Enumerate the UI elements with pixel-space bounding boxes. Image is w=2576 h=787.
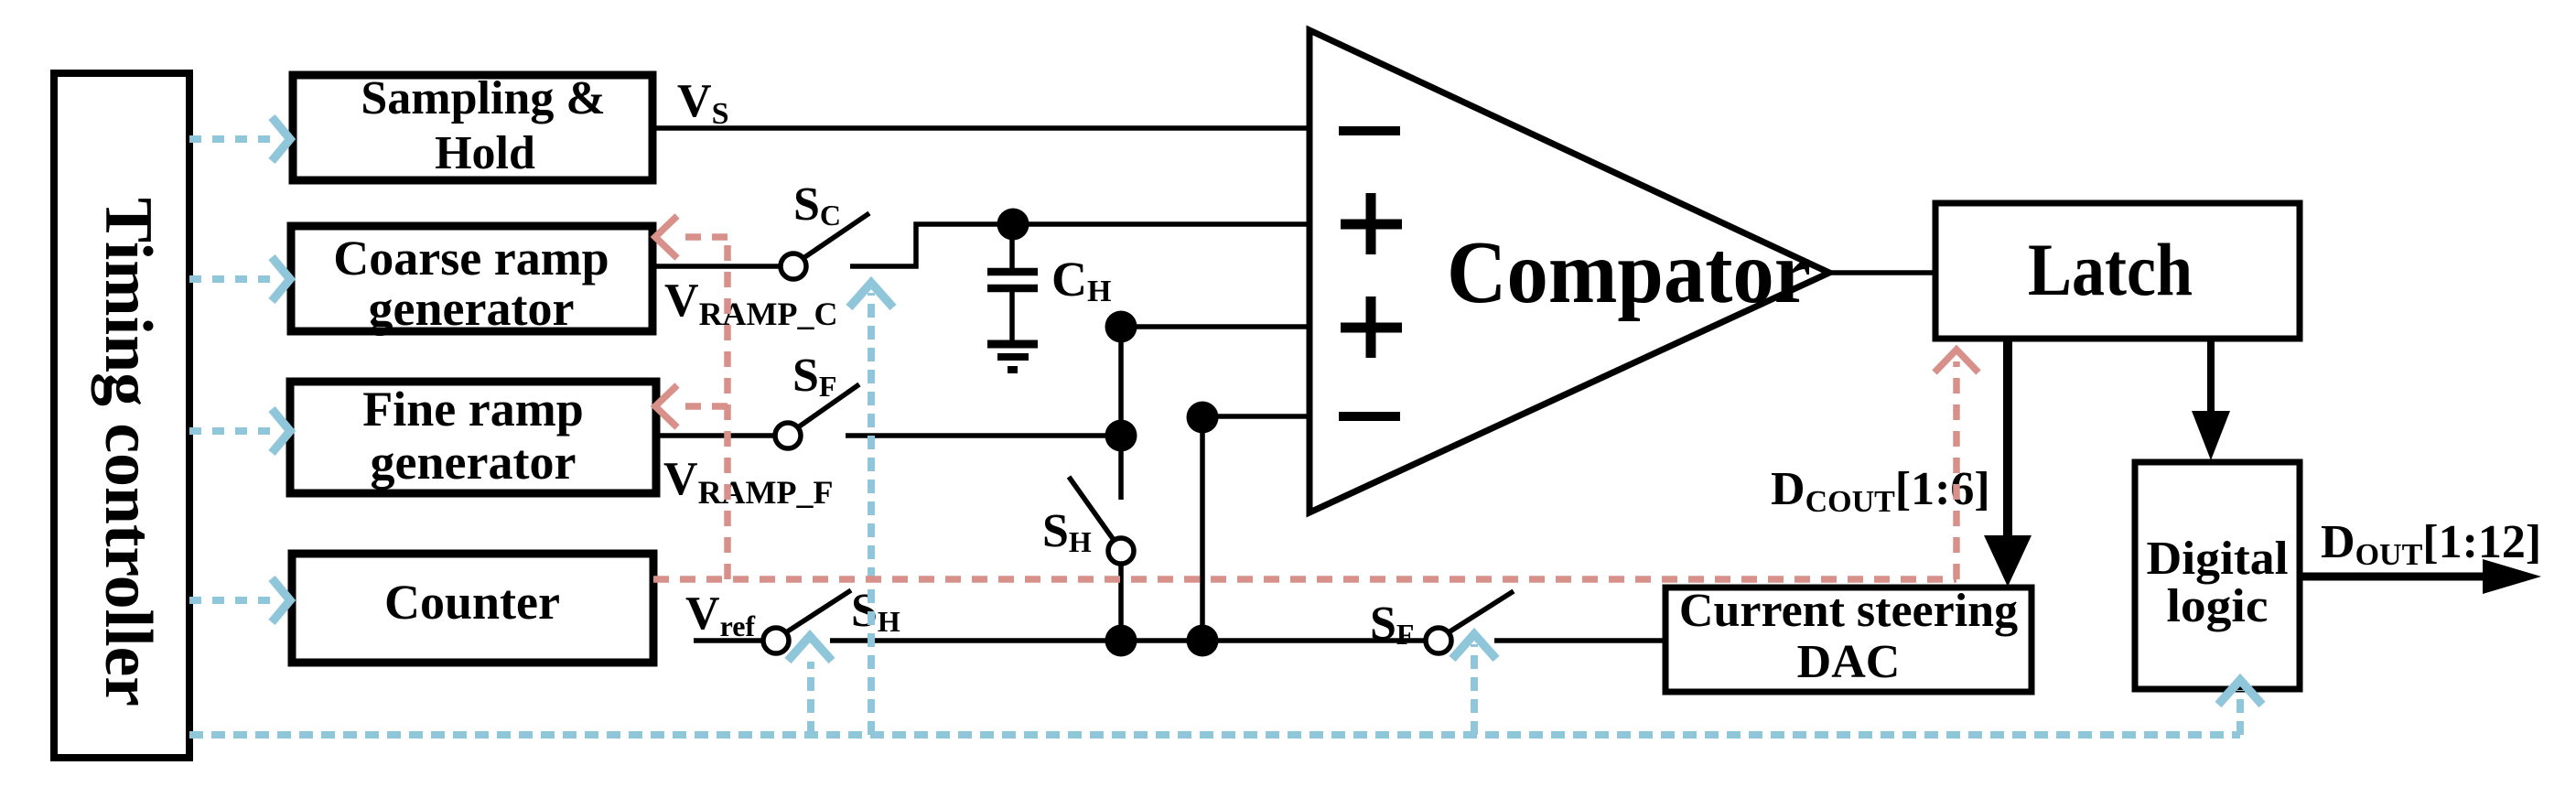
svg-text:Digital: Digital [2147, 533, 2289, 585]
wire blue timing to Sampling arrow [189, 117, 290, 161]
node input4 tap [1187, 402, 1219, 434]
switch SC [781, 213, 869, 279]
op-amp U1 comparator triangle [1310, 30, 1829, 512]
wire blue branch to SC switch [849, 283, 893, 735]
svg-text:VS: VS [677, 75, 728, 131]
switch SH on Vref line [763, 590, 851, 653]
wire vertical from input3 tap down to switch SH [1118, 327, 1124, 500]
block Counter [292, 554, 653, 663]
node capacitor tap [997, 209, 1029, 241]
wire from switch SC to comparator input2 [850, 224, 1310, 266]
switch SH middle [1069, 477, 1134, 564]
svg-text:Coarse ramp: Coarse ramp [333, 231, 609, 286]
wire red vertical DCOUT to Latch arrow [1935, 350, 1978, 579]
wire blue bottom bus [189, 731, 2240, 738]
pin plus input 2 [1341, 193, 1402, 254]
node Vref-SH junction [1105, 625, 1137, 657]
svg-text:SF: SF [1370, 598, 1414, 651]
block Coarse ramp generator [291, 226, 652, 336]
svg-text:Compator: Compator [1447, 223, 1811, 322]
wire blue branch to SH vref switch [788, 636, 832, 735]
svg-text:generator: generator [371, 435, 577, 490]
svg-text:CH: CH [1051, 252, 1111, 308]
svg-text:VRAMP_C: VRAMP_C [664, 275, 838, 332]
wire red vertical branch up [724, 237, 731, 579]
wire Digital logic output DOUT arrow [2300, 559, 2541, 594]
svg-text:Latch: Latch [2028, 228, 2193, 311]
svg-text:SC: SC [793, 178, 841, 232]
wire blue timing to Coarse arrow [189, 257, 290, 301]
wire from Fine ramp generator to switch SF [656, 433, 775, 438]
block Latch [1935, 203, 2300, 339]
wire from switch SH down to Vref line [1118, 564, 1124, 641]
svg-text:DAC: DAC [1797, 636, 1901, 688]
capacitor CH [987, 224, 1038, 340]
wire blue branch to SF lower switch [1452, 634, 1496, 735]
svg-text:VRAMP_F: VRAMP_F [663, 453, 834, 511]
svg-text:Counter: Counter [384, 575, 560, 630]
svg-text:Timing controller: Timing controller [91, 198, 166, 706]
wire Latch to Current steering DAC with arrow [1984, 339, 2032, 587]
node SF wire junction [1105, 420, 1137, 452]
block Fine ramp generator [290, 382, 656, 493]
svg-text:SF: SF [792, 350, 836, 403]
pin minus input 4 [1339, 412, 1400, 421]
svg-text:Fine ramp: Fine ramp [362, 382, 583, 437]
block Sampling & Hold [293, 72, 652, 180]
ground [987, 344, 1038, 370]
svg-text:SH: SH [851, 585, 900, 638]
wire from switch SF lower to Current steering DAC [1494, 638, 1665, 643]
svg-text:Current steering: Current steering [1679, 585, 2018, 637]
pin minus input 1 [1339, 126, 1400, 135]
wire Latch to Digital logic with arrow [2192, 339, 2230, 460]
wire blue timing to Fine arrow [189, 409, 290, 453]
block Timing controller [54, 73, 189, 758]
svg-text:DOUT[1:12]: DOUT[1:12] [2321, 516, 2541, 572]
wire vertical from input4 tap to Vref line [1200, 417, 1205, 641]
wire blue branch to Digital logic arrow [2218, 680, 2262, 735]
svg-text:Hold: Hold [435, 127, 535, 179]
wire from switch SF to junction [846, 433, 1121, 438]
switch SF upper [775, 384, 859, 448]
wire VS from Sampling&Hold to comparator input1 [651, 125, 1310, 131]
svg-text:Sampling &: Sampling & [361, 72, 605, 124]
block Current steering DAC [1665, 585, 2032, 692]
svg-text:generator: generator [369, 281, 575, 336]
wire red arrow into Fine ramp generator [655, 385, 728, 427]
wire comparator input3 [1121, 324, 1310, 329]
wire red arrow into Coarse ramp generator [655, 216, 728, 258]
wire red horizontal bus from Counter to DCOUT [653, 576, 1956, 583]
pin plus input 3 [1341, 296, 1402, 358]
wire Vref lead [694, 638, 763, 643]
node input3 tap [1105, 311, 1137, 343]
svg-text:SH: SH [1042, 505, 1092, 558]
wire comparator input4 [1202, 414, 1310, 419]
block Digital logic [2135, 462, 2300, 689]
switch SF lower [1426, 591, 1514, 653]
wire comparator output to Latch [1827, 270, 1935, 275]
wire Vref line to switch SF lower [830, 638, 1426, 643]
wire blue timing to Counter arrow [189, 578, 290, 622]
wire from Coarse ramp generator to switch SC [652, 264, 781, 269]
node Vref-input4 junction [1187, 625, 1219, 657]
svg-text:logic: logic [2167, 580, 2269, 632]
svg-text:Vref: Vref [685, 588, 755, 642]
